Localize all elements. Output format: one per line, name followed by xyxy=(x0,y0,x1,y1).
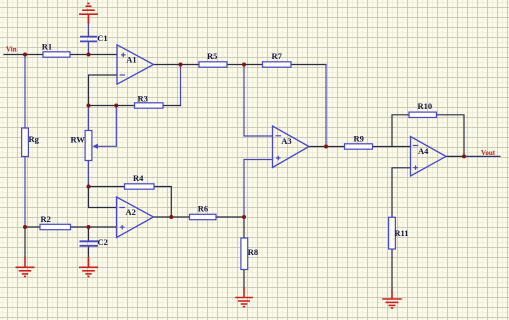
capacitor C2 xyxy=(80,241,99,246)
wire Rg bottom to node L xyxy=(24,157,26,228)
wire node E down to R3 row xyxy=(180,65,182,106)
junction node J xyxy=(169,215,173,219)
wire node B to A1 plus input xyxy=(89,54,118,56)
wire R5 to node F xyxy=(227,64,244,66)
resistor R5 xyxy=(199,62,227,67)
junction node G xyxy=(324,145,328,149)
ground below R11 xyxy=(382,290,402,308)
wire R10 right leg to node H xyxy=(437,115,465,157)
resistor R9 xyxy=(345,144,373,149)
resistor R2 xyxy=(40,224,71,229)
wire A4 output to node H xyxy=(446,155,464,157)
svg-text:A4: A4 xyxy=(418,146,429,156)
wire A3 output to node G xyxy=(309,146,326,148)
power symbol VCC top xyxy=(79,4,98,24)
svg-text:A1: A1 xyxy=(126,55,136,65)
wire C1 to power symbol xyxy=(88,23,90,36)
capacitor C1 xyxy=(80,37,97,42)
wire RW bottom to node I xyxy=(88,161,90,187)
svg-text:R6: R6 xyxy=(198,203,208,213)
op-amp A2 xyxy=(117,197,154,238)
wire node M to A2 plus input xyxy=(89,226,117,228)
junction node L xyxy=(23,225,27,229)
wire node H to Vout xyxy=(464,155,500,157)
wire node A to R1 xyxy=(25,54,43,56)
resistor R6 xyxy=(190,214,217,219)
svg-text:R11: R11 xyxy=(394,228,408,238)
wire node K down to R8 xyxy=(243,217,245,238)
wire node F down to A3 minus row xyxy=(244,65,273,137)
junction node F xyxy=(242,63,246,67)
wire node L to ground xyxy=(24,227,26,258)
wire R7 right to node G corner xyxy=(291,64,326,66)
wire C2 to ground xyxy=(88,246,90,258)
svg-text:A3: A3 xyxy=(281,136,291,146)
resistor R10 xyxy=(409,112,437,117)
wire R2 to node M xyxy=(71,226,89,228)
junction node B xyxy=(87,53,91,57)
resistor R3 xyxy=(135,103,164,108)
svg-text:Vin: Vin xyxy=(6,46,17,54)
svg-text:R8: R8 xyxy=(248,247,258,257)
wire A1 output to node E xyxy=(154,64,181,66)
wire Vin to node A xyxy=(4,54,25,56)
junction node D xyxy=(114,104,118,108)
wire node M down to C2 xyxy=(88,227,90,241)
junction node E xyxy=(179,63,183,67)
resistor R7 xyxy=(263,62,292,67)
svg-text:R10: R10 xyxy=(418,101,433,111)
svg-text:R3: R3 xyxy=(138,93,148,103)
wire node F to R7 xyxy=(244,64,263,66)
ground below R8 xyxy=(235,288,253,307)
wire R6 to node K xyxy=(216,216,244,218)
svg-text:C2: C2 xyxy=(98,237,108,247)
wire R4 to node J xyxy=(154,187,171,218)
wire R3 to node C xyxy=(89,105,135,107)
wire A2 output to R6 xyxy=(154,216,190,218)
wire node I to R4 xyxy=(89,186,125,188)
svg-text:R1: R1 xyxy=(42,42,52,52)
junction node I xyxy=(87,185,91,189)
svg-text:RW: RW xyxy=(71,134,86,144)
svg-text:R2: R2 xyxy=(41,214,51,224)
wire node B up to C1 xyxy=(88,42,90,55)
wire down to A3 output node G xyxy=(325,65,327,147)
junction node K xyxy=(242,215,246,219)
resistor Rg xyxy=(22,128,29,157)
junction node H xyxy=(462,154,466,158)
op-amp A1 xyxy=(117,45,154,84)
resistor R8 xyxy=(241,238,248,270)
junction node A xyxy=(23,53,27,57)
wire A4 plus input to R11 xyxy=(392,168,411,218)
op-amp A3 xyxy=(273,126,310,168)
ground below node L xyxy=(16,257,35,276)
wire R1 to node B xyxy=(70,54,89,56)
wire RW wiper to node D xyxy=(96,106,116,147)
svg-text:R9: R9 xyxy=(354,133,364,143)
wire node K up to A3 plus row xyxy=(244,160,273,218)
wire A1 minus input xyxy=(89,75,118,106)
junction node C xyxy=(87,104,91,108)
wire node E to R5 xyxy=(181,64,200,66)
svg-text:Rg: Rg xyxy=(29,134,40,144)
wire node A down Rg top xyxy=(24,55,26,129)
resistor R11 xyxy=(389,217,396,249)
resistor R1 xyxy=(43,52,70,57)
svg-text:R5: R5 xyxy=(207,51,217,61)
junction node M xyxy=(87,225,91,229)
svg-text:R7: R7 xyxy=(272,51,283,61)
wire node C down to RW top xyxy=(88,106,90,131)
potentiometer RW xyxy=(85,131,92,161)
wire node G to R9 xyxy=(326,146,345,148)
wire node L to R2 xyxy=(25,226,40,228)
wire R11 to ground xyxy=(391,249,393,291)
svg-text:Vout: Vout xyxy=(481,149,496,157)
op-amp A4 xyxy=(411,137,447,177)
wire R9 to A4 minus input xyxy=(373,146,411,148)
svg-text:A2: A2 xyxy=(126,207,136,217)
ground below C2 xyxy=(79,257,98,276)
svg-text:R4: R4 xyxy=(133,173,144,183)
wire R8 to ground xyxy=(243,270,245,290)
wire R10 left leg xyxy=(392,115,409,147)
resistor R4 xyxy=(125,184,155,189)
svg-text:C1: C1 xyxy=(97,33,107,43)
wire node I down to A2 minus input xyxy=(89,187,117,208)
